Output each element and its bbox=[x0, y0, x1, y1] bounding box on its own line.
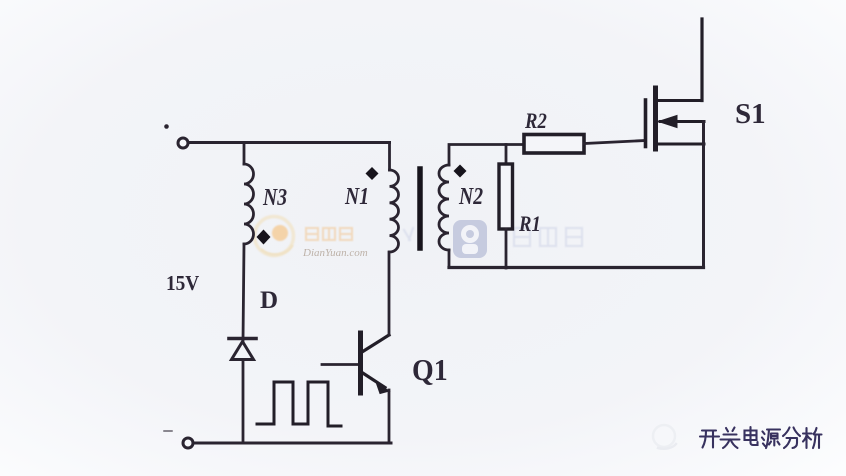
winding N1 bbox=[390, 170, 399, 252]
svg-text:N2: N2 bbox=[458, 182, 483, 209]
watermark caption bbox=[700, 427, 822, 448]
watermark star text bbox=[404, 228, 582, 246]
phase dot N1 bbox=[366, 167, 379, 180]
winding N2 bbox=[439, 165, 449, 250]
wire diode to bottom rail bbox=[242, 360, 245, 444]
svg-text:N3: N3 bbox=[262, 183, 287, 210]
wire N2 top to R2 bbox=[449, 145, 524, 166]
wire source down bbox=[702, 122, 705, 268]
wire bottom rail right bbox=[449, 266, 704, 269]
mosfet S1 bbox=[646, 88, 705, 149]
svg-text:D: D bbox=[260, 287, 278, 314]
watermark dianyuan text bbox=[302, 228, 368, 259]
wire Q1 emitter to rail bbox=[388, 390, 391, 443]
svg-text:R1: R1 bbox=[518, 213, 541, 237]
terminal input positive bbox=[164, 124, 188, 148]
wire Q1 base lead bbox=[322, 363, 358, 366]
wire R1 bottom bbox=[505, 229, 508, 268]
terminal input negative bbox=[164, 431, 193, 448]
wire N3 top feed bbox=[243, 143, 246, 165]
wire Q1 collector to N1 bbox=[388, 252, 391, 335]
phase dot N3 bbox=[257, 230, 271, 245]
wire N1 top feed bbox=[388, 143, 391, 171]
wire R1 top bbox=[505, 145, 508, 165]
svg-text:Q1: Q1 bbox=[412, 354, 448, 388]
watermark bottom logo bbox=[653, 425, 676, 449]
svg-text:15V: 15V bbox=[166, 272, 200, 295]
wire N2 bottom bbox=[448, 250, 451, 267]
wire bottom rail left bbox=[194, 442, 392, 445]
winding N3 bbox=[244, 164, 254, 244]
svg-text:N1: N1 bbox=[344, 182, 369, 209]
square wave drive signal bbox=[257, 382, 341, 426]
svg-text:DianYuan.com: DianYuan.com bbox=[302, 247, 368, 259]
transformer core bbox=[417, 169, 423, 248]
svg-text:R2: R2 bbox=[524, 110, 547, 134]
wire top rail bbox=[189, 141, 390, 144]
svg-text:S1: S1 bbox=[735, 98, 766, 130]
wire drain up bbox=[700, 19, 703, 101]
wire R2 to gate bbox=[584, 141, 645, 144]
transistor Q1 bbox=[361, 333, 390, 394]
phase dot N2 bbox=[454, 165, 467, 178]
resistor R2 bbox=[524, 135, 584, 154]
diode D bbox=[229, 339, 256, 360]
resistor R1 bbox=[499, 164, 513, 229]
watermark dianyuan ring bbox=[255, 217, 294, 256]
wire N3 to diode bbox=[243, 244, 244, 341]
watermark star logo bbox=[453, 220, 487, 258]
